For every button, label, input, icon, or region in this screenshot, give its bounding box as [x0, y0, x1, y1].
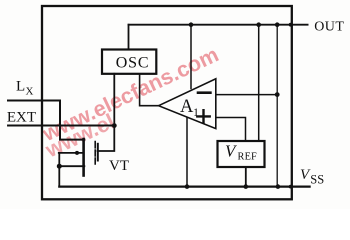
watermark www.elecfans.com	[38, 42, 222, 146]
wire A1 plus input to VREF	[216, 118, 246, 142]
wire VT body line	[59, 152, 84, 154]
watermark second row partial	[41, 109, 118, 162]
transistor VT channel bar	[82, 139, 85, 176]
wire op-amp ground	[186, 117, 188, 187]
node vss border crossing	[289, 185, 293, 189]
node divider tap	[275, 92, 280, 97]
wire VREF feed from rail	[258, 25, 260, 141]
node rail border crossing	[289, 23, 293, 27]
wire VSS rail	[59, 186, 309, 188]
svg-text:OSC: OSC	[116, 54, 150, 71]
Vref block	[218, 141, 265, 167]
transistor VT channel dashes	[94, 142, 96, 165]
IC outline box	[42, 6, 292, 199]
wire A1 minus input	[216, 94, 277, 96]
OSC block	[102, 50, 156, 74]
wire divider OUT to VSS	[276, 25, 278, 187]
wire VREF ground	[245, 167, 247, 187]
wire VT source line	[59, 165, 84, 167]
wire VSS riser to source line	[58, 153, 60, 187]
wire OUT rail	[129, 24, 308, 26]
plus glyph	[197, 110, 209, 122]
svg-text:A: A	[180, 97, 194, 117]
node opamp power on rail	[189, 22, 194, 27]
svg-text:L: L	[16, 78, 25, 94]
wire Lx pin to VT drain	[8, 101, 84, 140]
svg-text:SS: SS	[310, 173, 324, 187]
node vref gnd on rail	[244, 184, 249, 189]
node source junction	[57, 164, 62, 169]
svg-text:OUT: OUT	[314, 20, 344, 35]
transistor VT gate plate	[97, 144, 99, 161]
wire OSC bottom to EXT node to VT gate	[98, 74, 115, 151]
svg-text:V: V	[225, 141, 238, 160]
node vref feed on rail	[256, 22, 261, 27]
svg-text:EXT: EXT	[7, 110, 36, 126]
node body arrow	[75, 151, 79, 155]
svg-text:VT: VT	[109, 158, 129, 174]
svg-text:X: X	[26, 86, 34, 98]
node opamp gnd on rail	[185, 184, 190, 189]
node divider gnd on rail	[276, 184, 281, 189]
minus glyph	[198, 91, 210, 94]
wire rail corner down to OSC top	[128, 25, 130, 50]
node divider on rail	[275, 22, 280, 27]
wire A1 output to OSC bottom	[140, 74, 159, 106]
node EXT gate junction	[112, 123, 117, 128]
wire EXT pin	[8, 125, 114, 127]
op-amp A1 triangle	[159, 79, 216, 129]
wire op-amp power from rail	[190, 25, 192, 89]
svg-text:REF: REF	[238, 152, 258, 163]
svg-text:1: 1	[193, 105, 199, 119]
